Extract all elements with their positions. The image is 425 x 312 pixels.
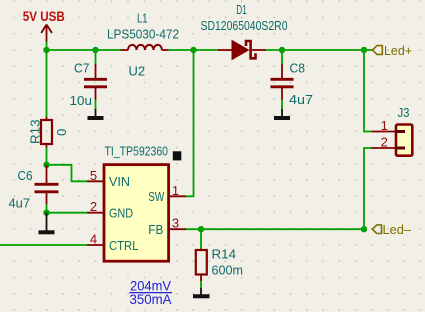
wire J3 pin2 to Led- vertical — [364, 148, 372, 229]
hierarchical label Led+ — [373, 44, 413, 58]
svg-text:D1: D1 — [236, 2, 247, 17]
svg-text:CTRL: CTRL — [109, 238, 139, 253]
svg-text:0: 0 — [54, 129, 69, 136]
svg-text:SW: SW — [148, 189, 165, 204]
ground below C6 — [39, 213, 55, 233]
svg-text:L1: L1 — [137, 11, 148, 26]
wire power stem — [46, 42, 48, 51]
wire C7 lower — [95, 100, 97, 110]
wire L1 to D1 — [169, 49, 219, 51]
junction GND branch — [43, 210, 49, 216]
junction VIN branch — [43, 162, 49, 168]
junction Led+ branch — [361, 47, 367, 53]
pin 4 CTRL — [87, 232, 139, 254]
svg-text:C6: C6 — [18, 168, 33, 183]
wire R13 bottom — [46, 148, 48, 165]
wire CTRL to left edge — [0, 244, 87, 246]
svg-text:R14: R14 — [212, 246, 237, 261]
pin 3 FB — [148, 216, 186, 237]
pin 2 GND — [87, 199, 133, 220]
svg-text:VIN: VIN — [109, 174, 130, 189]
svg-text:SD12065040S2R0: SD12065040S2R0 — [201, 18, 288, 33]
wire R14 bottom — [200, 281, 202, 288]
wire C6 lower — [46, 204, 48, 213]
ground below C7 — [88, 109, 104, 118]
svg-text:J3: J3 — [398, 105, 410, 120]
ground below C8 — [274, 109, 290, 118]
inductor L1 — [107, 11, 179, 51]
junction at 5V — [43, 47, 49, 53]
svg-text:10u: 10u — [70, 93, 93, 108]
power symbol 5V USB — [23, 8, 65, 42]
svg-text:2: 2 — [381, 135, 388, 150]
DNP marker black square — [173, 151, 182, 160]
svg-text:4u7: 4u7 — [289, 92, 313, 107]
svg-text:5V USB: 5V USB — [23, 8, 65, 24]
svg-text:U2: U2 — [129, 64, 146, 79]
capacitor C6 — [9, 165, 59, 211]
wire top rail — [47, 49, 121, 51]
svg-text:1: 1 — [172, 183, 179, 198]
wire C8 lower — [281, 100, 283, 110]
svg-text:1: 1 — [381, 118, 388, 133]
pin 1 of J3 — [372, 131, 397, 133]
resistor R14 — [196, 246, 243, 281]
wire C7 upper — [95, 50, 97, 64]
wire D1 to Led+ — [266, 49, 373, 51]
junction C8 — [279, 47, 285, 53]
capacitor C8 — [271, 60, 314, 107]
diode D1 — [201, 2, 288, 60]
svg-text:TI_TP592360: TI_TP592360 — [105, 143, 169, 158]
connector J3 — [372, 105, 413, 156]
wire FB to Led- — [186, 228, 364, 230]
ground below R14 — [193, 288, 210, 296]
pin 5 VIN — [87, 168, 130, 189]
wire Led+ to J3 pin1 vertical — [364, 50, 372, 132]
svg-text:3: 3 — [172, 216, 179, 231]
wire C8 upper — [281, 50, 283, 64]
svg-text:Led–: Led– — [383, 223, 412, 237]
resistor R13 — [27, 117, 69, 148]
svg-text:Led+: Led+ — [384, 44, 412, 58]
svg-text:2: 2 — [90, 199, 97, 214]
svg-text:GND: GND — [109, 206, 133, 221]
pin 2 of J3 — [372, 147, 397, 149]
junction Led- — [361, 226, 367, 232]
capacitor C7 — [70, 60, 108, 108]
svg-text:C7: C7 — [74, 60, 90, 75]
wire junction to VIN pin — [47, 165, 88, 182]
pin 1 SW — [148, 183, 186, 204]
svg-text:5: 5 — [90, 168, 97, 183]
svg-text:R13: R13 — [27, 120, 42, 145]
junction R14 branch — [198, 226, 204, 232]
IC U2 TI_TP592360 — [104, 64, 169, 262]
svg-text:FB: FB — [148, 222, 163, 237]
wire R13 top (5V to R13) — [46, 50, 48, 117]
svg-text:350mA: 350mA — [130, 291, 173, 307]
svg-text:4u7: 4u7 — [9, 196, 31, 211]
svg-text:LPS5030-472: LPS5030-472 — [107, 26, 179, 41]
svg-text:C8: C8 — [290, 60, 306, 75]
note 204mV 350mA — [129, 278, 172, 308]
junction SW branch — [190, 47, 196, 53]
wire SW to junction — [186, 50, 194, 196]
svg-text:600m: 600m — [212, 262, 244, 277]
hierarchical label Led- — [372, 223, 411, 237]
wire junction to GND pin — [47, 212, 88, 214]
junction C7 — [92, 47, 98, 53]
wire R14 top — [200, 229, 202, 248]
svg-text:4: 4 — [90, 232, 97, 247]
